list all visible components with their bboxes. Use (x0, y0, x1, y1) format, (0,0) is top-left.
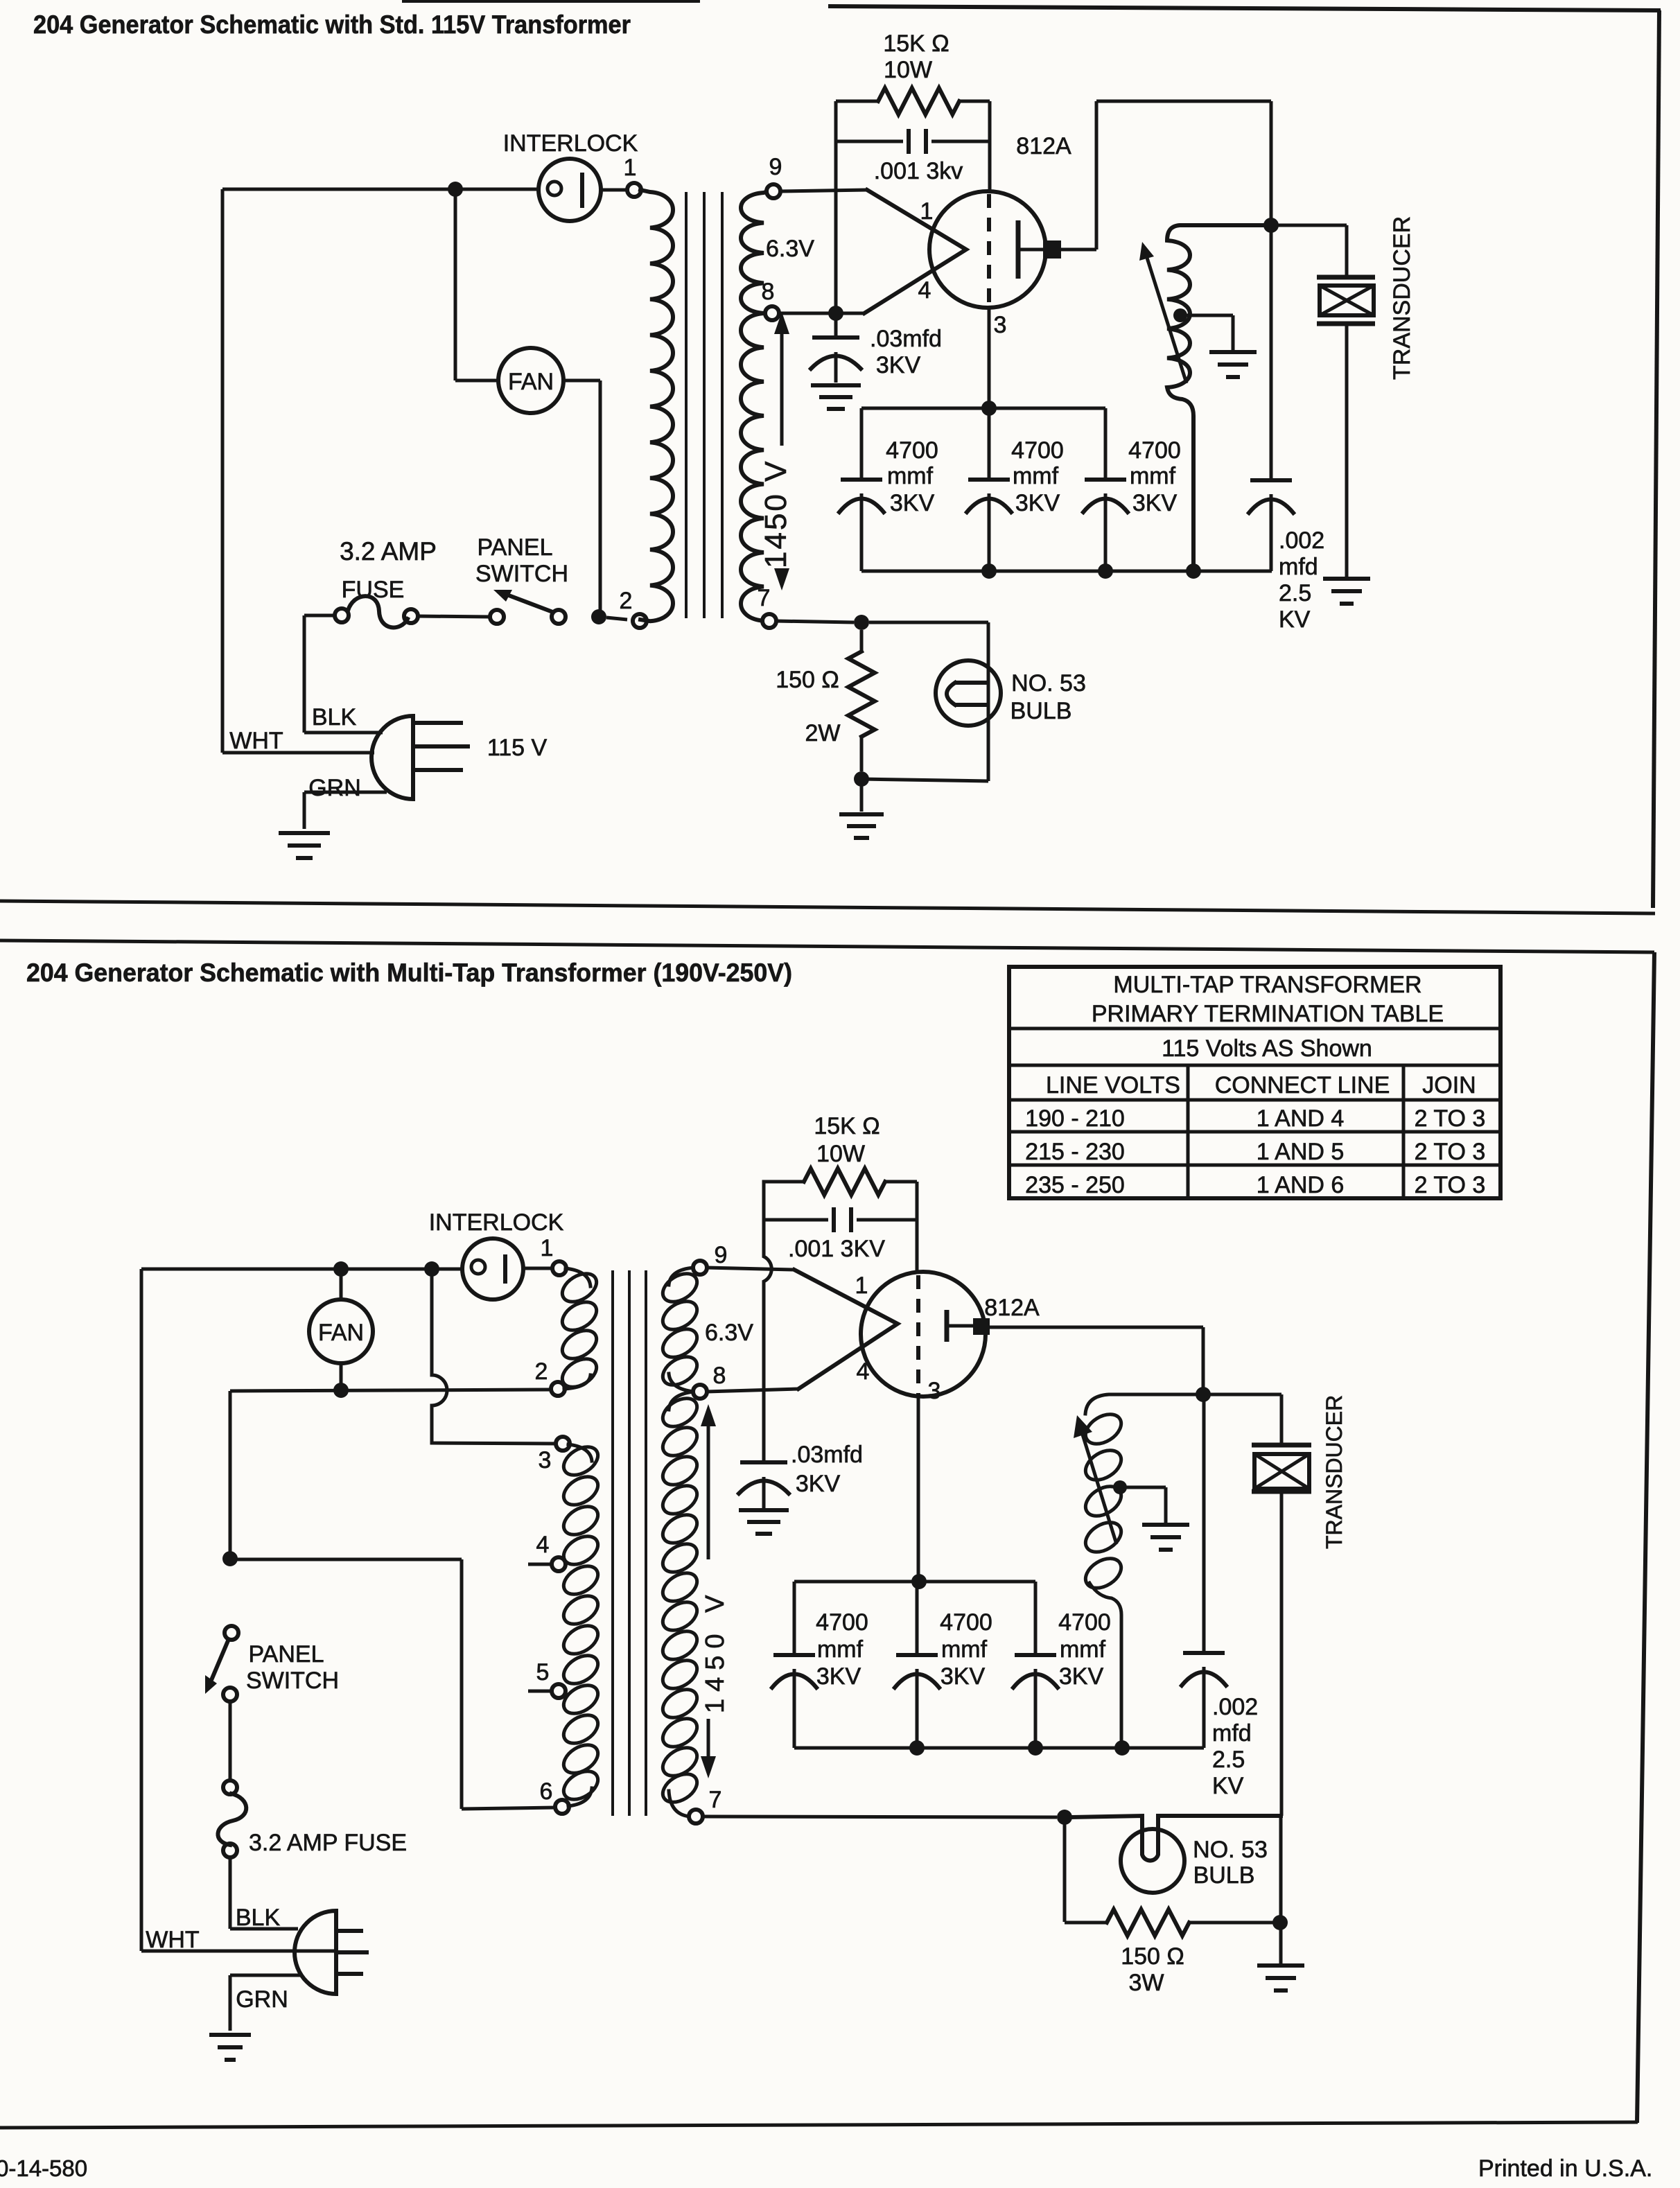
svg-text:4700: 4700 (816, 1609, 868, 1636)
node: inductor tap dot (1173, 308, 1187, 322)
transformer T2 core (613, 1270, 646, 1816)
wire: tap to ground (1180, 315, 1233, 350)
wire: grid to caps rail (B) (917, 1394, 920, 1580)
svg-text:2 TO 3: 2 TO 3 (1415, 1139, 1486, 1165)
terminal pin 5 (B) (528, 1690, 552, 1693)
svg-text:BULB: BULB (1010, 698, 1072, 724)
svg-text:4: 4 (918, 277, 931, 304)
node: junction dot grid/caps rail (981, 401, 997, 416)
svg-text:LINE VOLTS: LINE VOLTS (1046, 1072, 1180, 1099)
wire: pin7 rail (B) (702, 1817, 1057, 1817)
node: dot rail C11 (B) (1028, 1740, 1043, 1756)
svg-text:mmf: mmf (817, 1636, 864, 1663)
wire: interlock to pin1 (B) (523, 1267, 553, 1270)
svg-text:WHT: WHT (229, 728, 283, 754)
svg-text:mmf: mmf (941, 1636, 988, 1663)
node: dot rail C5 (1098, 563, 1113, 579)
svg-text:mmf: mmf (1060, 1636, 1106, 1663)
wire: WHT lead (B) (141, 1950, 336, 1953)
power plug P1 115V (371, 716, 470, 799)
fan motor B2 (340, 1269, 343, 1299)
svg-text:PRIMARY TERMINATION TABLE: PRIMARY TERMINATION TABLE (1092, 1001, 1444, 1027)
svg-text:10W: 10W (884, 57, 932, 83)
terminal pin 9 (B) (693, 1261, 707, 1275)
svg-text:SWITCH: SWITCH (475, 561, 568, 587)
power plug P2 (295, 1911, 369, 1994)
svg-text:3KV: 3KV (940, 1663, 986, 1690)
capacitor C8 .03mfd 3KV (739, 1462, 789, 1508)
tube V2 812A envelope (861, 1272, 986, 1397)
node: junction dot tank top (B) (1196, 1387, 1211, 1402)
svg-text:3: 3 (994, 312, 1007, 338)
svg-text:WHT: WHT (146, 1927, 199, 1953)
wire: GRN lead (B) (230, 1975, 303, 2031)
svg-text:4700: 4700 (940, 1609, 992, 1636)
wire: pin8 to filament (778, 312, 864, 315)
resistor R2 150 ohm 2W (848, 630, 875, 771)
svg-text:FUSE: FUSE (342, 577, 405, 603)
transformer T2 secondary 6.3V (pins 9-8) (669, 1268, 694, 1285)
svg-text:1450 V: 1450 V (759, 460, 793, 568)
wire: plate to tank top (1061, 101, 1271, 250)
svg-text:Printed in U.S.A.: Printed in U.S.A. (1478, 2155, 1652, 2182)
wire: caps top rail (B) (794, 1580, 1035, 1584)
label 1450 V with arrows (B) (707, 1414, 710, 1769)
node: dot pin3 branch (B) (424, 1261, 439, 1277)
svg-text:FAN: FAN (318, 1320, 364, 1346)
capacitor C12 .002 mfd 2.5KV (1182, 1394, 1226, 1748)
svg-text:4700: 4700 (1011, 437, 1064, 464)
ground: below C2 (811, 385, 861, 409)
svg-text:3KV: 3KV (796, 1471, 841, 1497)
variable inductor L2 (1085, 1394, 1203, 1414)
svg-text:2: 2 (535, 1358, 548, 1385)
node: dot fan bottom (B) (333, 1383, 349, 1398)
svg-text:INTERLOCK: INTERLOCK (429, 1209, 564, 1236)
svg-text:3KV: 3KV (1059, 1663, 1104, 1690)
tube V1 812A envelope (929, 191, 1046, 308)
svg-text:4: 4 (857, 1358, 870, 1385)
svg-text:1: 1 (624, 155, 637, 181)
wire: bulb to resistor junction (B) (1279, 1816, 1283, 1916)
svg-text:3W: 3W (1129, 1970, 1164, 1996)
svg-text:3KV: 3KV (876, 352, 921, 378)
capacitor C7 .001 3KV (764, 1207, 917, 1232)
wire: pin9 to filament (B) (706, 1268, 794, 1270)
inductor L2 adjust arrow (1083, 1435, 1117, 1544)
wire: caps bottom rail (B) (794, 1747, 1204, 1750)
wire: tap to ground (B) (1120, 1487, 1166, 1523)
svg-text:GRN: GRN (236, 1986, 288, 2013)
wire: pin3 branch with hop (B) (432, 1277, 557, 1444)
node: junction dot pin7/150 (854, 615, 869, 630)
svg-text:mmf: mmf (1013, 463, 1059, 489)
wire: resistor-cap right vertical to tube (988, 101, 992, 192)
svg-text:6.3V: 6.3V (766, 236, 814, 262)
svg-text:2.5: 2.5 (1279, 580, 1311, 606)
resistor R4 150 ohm 3W (1065, 1817, 1274, 1936)
svg-text:812A: 812A (984, 1295, 1040, 1321)
wire: to ground (B) (1279, 1923, 1283, 1963)
ground: below GRN (279, 833, 330, 858)
capacitor C10 4700mmf (895, 1582, 939, 1748)
fuse F1 3.2 AMP (335, 609, 349, 622)
wire: bulb bottom (861, 779, 988, 781)
svg-text:1 AND 5: 1 AND 5 (1257, 1139, 1345, 1165)
transformer T1 core (686, 192, 722, 618)
resistor R1 15K 10W (836, 88, 990, 114)
svg-text:812A: 812A (1016, 133, 1071, 159)
wire: junction to pin 2 (606, 618, 627, 620)
svg-text:1 AND 4: 1 AND 4 (1257, 1105, 1345, 1132)
tube V2 filament (794, 1270, 898, 1389)
wire: fuse to switch (417, 616, 491, 617)
transducer X2 (1252, 1445, 1311, 1816)
terminal pin 1 (top transformer) (627, 183, 641, 197)
svg-text:15K Ω: 15K Ω (814, 1113, 880, 1139)
svg-text:3: 3 (928, 1378, 941, 1404)
tube V1 filament (864, 190, 966, 313)
wire: top rail from left corner to interlock (222, 188, 540, 191)
terminal pin 7 (B) (689, 1810, 703, 1823)
svg-text:TRANSDUCER: TRANSDUCER (1389, 216, 1415, 380)
svg-text:150 Ω: 150 Ω (1121, 1943, 1184, 1970)
svg-text:9: 9 (769, 154, 782, 180)
svg-text:INTERLOCK: INTERLOCK (503, 130, 638, 157)
svg-text:KV: KV (1279, 606, 1311, 633)
svg-text:204 Generator Schematic with S: 204 Generator Schematic with Std. 115V T… (33, 10, 631, 39)
svg-text:4: 4 (536, 1532, 550, 1558)
svg-text:3.2 AMP: 3.2 AMP (340, 537, 437, 566)
node: dot rail C10 (B) (909, 1740, 925, 1756)
wire: pin2 rail (B) (230, 1390, 552, 1559)
wire: fuse to BLK (B) (230, 1857, 298, 1929)
svg-text:.03mfd: .03mfd (870, 326, 942, 352)
svg-text:mfd: mfd (1212, 1720, 1252, 1747)
svg-text:150 Ω: 150 Ω (776, 667, 839, 693)
svg-text:6: 6 (540, 1778, 553, 1805)
svg-text:115 Volts AS Shown: 115 Volts AS Shown (1162, 1035, 1372, 1062)
svg-text:1: 1 (920, 198, 934, 225)
transformer T1 secondary 1450V winding (pins 8-7) (741, 313, 769, 627)
svg-text:4700: 4700 (886, 437, 938, 464)
wire: to pin6 (B) (230, 1559, 556, 1809)
wire: BLK lead to plug (304, 731, 383, 735)
wire: WHT lead to plug (222, 751, 374, 755)
terminal pin 8 (B) (693, 1385, 707, 1399)
node: dot panel-switch branch (B) (222, 1551, 238, 1566)
node: junction dot tank top (1263, 218, 1279, 233)
terminal pin 2 (B) (551, 1382, 565, 1396)
svg-text:MULTI-TAP TRANSFORMER: MULTI-TAP TRANSFORMER (1113, 972, 1421, 998)
wire: corner at fuse left (304, 615, 335, 733)
wire: to ground stem (860, 779, 864, 812)
capacitor C6 .002 mfd 2.5KV (1249, 225, 1293, 571)
terminal pin 8 (765, 306, 779, 320)
ground: inductor tap (B) (1142, 1525, 1189, 1550)
svg-text:BLK: BLK (236, 1905, 281, 1931)
terminal pin 3 (B) (556, 1437, 570, 1451)
terminal pin 1 (B) (552, 1261, 566, 1275)
node: junction dot switch/fan/pin2 (591, 609, 606, 624)
svg-text:3KV: 3KV (816, 1663, 861, 1690)
table: MULTI-TAP TRANSFORMER PRIMARY TERMINATION TABLE (1009, 967, 1500, 1198)
node: dot fan branch (B) (333, 1261, 349, 1277)
svg-text:.002: .002 (1279, 527, 1324, 554)
ground: below C8 (739, 1510, 789, 1534)
wire: left vertical WHT (B) (140, 1269, 143, 1951)
wire: right vertical to tube (B) (916, 1182, 919, 1274)
svg-text:mmf: mmf (1130, 463, 1176, 489)
node: dot rail inductor (B) (1114, 1740, 1130, 1756)
svg-text:215 - 230: 215 - 230 (1025, 1139, 1125, 1165)
wire: pin8 to filament (B) (706, 1389, 798, 1392)
svg-text:SWITCH: SWITCH (246, 1668, 339, 1694)
svg-text:.002: .002 (1212, 1694, 1258, 1720)
wire: tube grid to caps rail (988, 308, 991, 408)
panel switch S4 (225, 1626, 238, 1640)
lamp DS1 NO.53 bulb (936, 660, 1001, 726)
svg-text:5: 5 (536, 1659, 550, 1686)
wire: caps bottom rail (861, 570, 1272, 573)
node: junction dot .03mfd tap (828, 306, 843, 321)
svg-text:115 V: 115 V (487, 735, 548, 761)
svg-text:6.3V: 6.3V (705, 1320, 753, 1346)
svg-text:1 AND 6: 1 AND 6 (1257, 1172, 1345, 1198)
fuse F2 3.2 AMP (223, 1780, 237, 1794)
svg-text:KV: KV (1212, 1773, 1244, 1799)
transformer T2 primary winding pins 1-2 (566, 1268, 590, 1286)
wire: junction to fan (455, 189, 498, 380)
svg-text:mfd: mfd (1279, 554, 1318, 580)
tube V1 plate (1018, 220, 1043, 279)
interlock connector S1 (539, 159, 601, 221)
resistor R3 15K 10W (764, 1169, 917, 1195)
svg-text:7: 7 (758, 585, 771, 611)
svg-text:JOIN: JOIN (1422, 1072, 1476, 1099)
capacitor C11 4700mmf (1013, 1582, 1058, 1748)
terminal pin 6 (B) (555, 1800, 569, 1814)
svg-text:0-14-580: 0-14-580 (0, 2155, 87, 2181)
tube V1 plate cap (black square) (1043, 240, 1061, 259)
panel switch S2 (490, 610, 504, 624)
svg-text:FAN: FAN (508, 369, 554, 395)
node: dot rail C4 (981, 563, 997, 579)
terminal pin 4 (B) (528, 1563, 552, 1566)
wire: top rail (bottom schematic) (141, 1268, 462, 1271)
fan motor B1 (498, 348, 563, 413)
ground: below transducer (1323, 579, 1370, 604)
svg-text:NO. 53: NO. 53 (1193, 1837, 1268, 1863)
wire: caps top rail (861, 407, 1105, 410)
svg-text:2 TO 3: 2 TO 3 (1415, 1105, 1486, 1132)
svg-text:9: 9 (715, 1242, 728, 1268)
svg-text:204 Generator Schematic with M: 204 Generator Schematic with Multi-Tap T… (26, 959, 792, 987)
transformer T1 secondary 6.3V winding (pins 9-8) (741, 191, 767, 313)
ground: below bulb branch (B) (1257, 1966, 1304, 1990)
wire: resistor-cap left vertical with hop (B) (764, 1182, 771, 1461)
wire: interlock to terminal 1 (601, 189, 627, 192)
terminal pin 7 (762, 614, 776, 628)
svg-text:3KV: 3KV (1015, 490, 1060, 516)
capacitor C1 .001 3kv (836, 129, 990, 154)
svg-text:BULB: BULB (1193, 1862, 1255, 1889)
svg-text:3KV: 3KV (1132, 490, 1178, 516)
wire: resistor-cap left vertical (834, 101, 838, 313)
svg-text:.03mfd: .03mfd (791, 1442, 863, 1468)
svg-text:1450 V: 1450 V (701, 1589, 730, 1713)
svg-text:4700: 4700 (1128, 437, 1181, 464)
wire: tank to transducer (B) (1203, 1394, 1281, 1444)
tube V2 grid (dashed) (916, 1275, 920, 1394)
transformer T1 primary winding (pins 1-2) (640, 190, 673, 621)
variable inductor L1 (1167, 225, 1271, 571)
interlock connector S3 (462, 1239, 523, 1299)
svg-text:3: 3 (539, 1447, 552, 1473)
transformer T2 secondary 1450V (pins 8-7) (669, 1392, 694, 1410)
svg-text:7: 7 (709, 1787, 722, 1813)
svg-text:mmf: mmf (887, 463, 934, 489)
svg-text:PANEL: PANEL (249, 1641, 324, 1668)
wire: tank to transducer (1271, 225, 1347, 276)
terminal pin 9 (767, 184, 780, 198)
svg-text:10W: 10W (816, 1141, 865, 1167)
node: junction dot bulb branch (B) (1057, 1810, 1072, 1825)
svg-text:GRN: GRN (308, 775, 361, 801)
wire: left vertical (WHT side) (221, 189, 225, 753)
transformer T2 primary winding pins 3-6 (568, 1444, 592, 1461)
capacitor C9 4700mmf (772, 1582, 816, 1748)
node: junction dot resistor/transducer ground (B) (1272, 1915, 1288, 1930)
ground: inductor tap (1209, 352, 1257, 377)
tube V1 grid (dashed) (987, 194, 991, 307)
svg-text:.001 3kv: .001 3kv (874, 158, 963, 184)
svg-text:8: 8 (713, 1363, 726, 1389)
svg-text:BLK: BLK (312, 704, 357, 730)
svg-text:2: 2 (620, 588, 633, 614)
wire: to bulb top (869, 622, 988, 781)
svg-text:8: 8 (762, 279, 775, 305)
svg-text:15K Ω: 15K Ω (883, 30, 949, 57)
lamp DS2 NO.53 bulb (1121, 1829, 1184, 1893)
wire: switch to fuse (B) (229, 1701, 232, 1781)
label 1450 V with arrows (780, 323, 784, 579)
capacitor C2 .03mfd 3KV (811, 313, 861, 383)
svg-text:CONNECT LINE: CONNECT LINE (1215, 1072, 1390, 1099)
transducer X1 (1317, 277, 1375, 577)
svg-text:4700: 4700 (1058, 1609, 1111, 1636)
svg-text:190 - 210: 190 - 210 (1025, 1105, 1125, 1132)
svg-text:NO. 53: NO. 53 (1011, 670, 1086, 697)
inductor L1 adjust arrow (1147, 258, 1187, 383)
node: junction dot caps rail (B) (911, 1574, 927, 1589)
node: inductor tap dot (B) (1113, 1480, 1127, 1494)
tube V2 plate (947, 1310, 973, 1342)
svg-text:3KV: 3KV (890, 490, 935, 516)
wire: GRN lead (304, 792, 387, 829)
wire: pin9 to filament (780, 190, 867, 191)
tube V2 plate cap (black square) (973, 1318, 990, 1335)
ground: below 150 ohm (839, 814, 884, 838)
svg-text:3.2 AMP FUSE: 3.2 AMP FUSE (249, 1830, 407, 1856)
svg-text:1: 1 (855, 1272, 868, 1299)
node: junction dot bulb/ground (854, 771, 869, 787)
svg-text:2.5: 2.5 (1212, 1747, 1245, 1773)
wire: fan to switch junction (563, 380, 600, 617)
ground: below GRN (B) (209, 2035, 251, 2060)
terminal pin 2 (top transformer) (633, 614, 647, 628)
svg-text:TRANSDUCER: TRANSDUCER (1322, 1395, 1347, 1549)
svg-text:1: 1 (541, 1235, 554, 1261)
capacitor C3 4700mmf (839, 408, 884, 571)
wire: pin7 to resistor (776, 621, 854, 622)
wire: plate to tank (B) (990, 1327, 1203, 1394)
capacitor C5 4700mmf (1083, 408, 1128, 571)
node: dot rail inductor (1186, 563, 1201, 579)
svg-text:2W: 2W (805, 720, 841, 746)
node: junction dot top rail / fan branch (448, 182, 463, 197)
svg-text:235 - 250: 235 - 250 (1025, 1172, 1125, 1198)
svg-text:PANEL: PANEL (478, 534, 553, 561)
svg-text:2 TO 3: 2 TO 3 (1415, 1172, 1486, 1198)
svg-text:.001 3KV: .001 3KV (788, 1236, 885, 1262)
capacitor C4 4700mmf (967, 408, 1011, 571)
